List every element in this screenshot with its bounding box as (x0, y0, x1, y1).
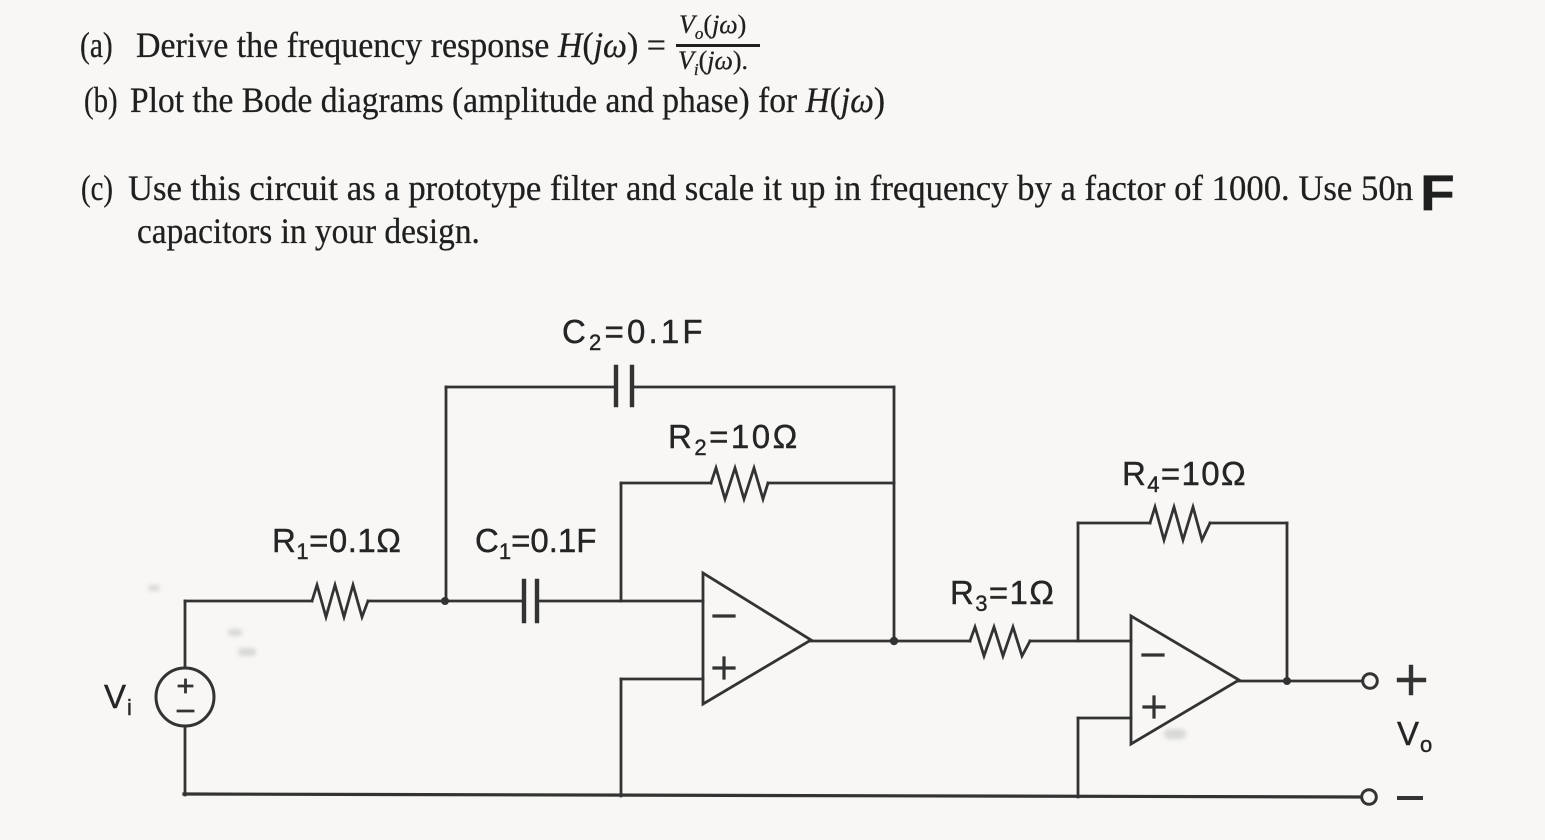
capacitor C2 (616, 367, 632, 405)
wire: U2 noninverting input horizontal (1078, 717, 1131, 720)
svg-text:Vi: Vi (104, 678, 133, 720)
node C junction dot at R4/output (1283, 677, 1291, 685)
node A junction dot (441, 597, 449, 605)
svg-text:C1=0.1F: C1=0.1F (475, 522, 596, 564)
wire: R4 top left horizontal (1078, 522, 1150, 525)
Vi minus sign (178, 710, 193, 713)
svg-text:Vo: Vo (1397, 715, 1433, 757)
scan smudge artifacts (148, 585, 1186, 739)
output + sign (1399, 667, 1424, 693)
wire: R4 top right horizontal (1210, 522, 1287, 525)
fraction numerator Vo(jw) (679, 12, 746, 38)
stylized F at end of line (c) (1420, 164, 1455, 222)
wire: R4 branch left vertical (1077, 523, 1080, 641)
wire: U1 noninverting drop to ground rail (620, 679, 623, 796)
wire: C1 to op-amp U1 inverting input (539, 600, 703, 603)
wire: Vi bottom lead (184, 726, 187, 795)
problem text line (b) (84, 79, 118, 121)
output - sign (1399, 796, 1421, 800)
Vi plus sign (179, 680, 192, 692)
U1 minus label (714, 614, 734, 617)
wire: C2 top left horizontal (446, 386, 614, 389)
wire: U2 noninverting drop to ground rail (1077, 718, 1080, 797)
svg-text:R3=1Ω: R3=1Ω (950, 574, 1055, 616)
wire: C2 branch right vertical down to U1 output (893, 387, 896, 641)
wire: U1 noninverting input horizontal (621, 678, 703, 681)
terminal - output circle (1362, 790, 1377, 805)
problem text line (c) first line (81, 167, 113, 209)
resistor R2 (711, 468, 768, 499)
node B junction dot at U1 output (890, 637, 898, 645)
svg-text:R1=0.1Ω: R1=0.1Ω (272, 522, 401, 564)
wire: R4 branch right vertical down to output (1286, 523, 1289, 682)
voltage source Vi (156, 668, 214, 726)
capacitor C1 (524, 581, 537, 621)
svg-text:C2=0.1F: C2=0.1F (562, 313, 706, 355)
resistor R1 (312, 585, 368, 617)
svg-text:R4=10Ω: R4=10Ω (1122, 455, 1247, 497)
wire: R2 branch left vertical (620, 483, 623, 601)
wire: top-left corner to R1 (185, 600, 312, 603)
wire: C2 top right horizontal (634, 386, 894, 389)
op-amp U1 (703, 573, 811, 704)
wire: R2 left horizontal (621, 482, 711, 485)
wire: ground rail bottom (184, 794, 1361, 797)
wire: Vi top lead (184, 601, 187, 668)
op-amp U2 (1131, 616, 1239, 744)
wire: R2 right horizontal (768, 482, 894, 485)
terminal + output circle (1363, 674, 1378, 689)
problem text line (c) second line (137, 210, 480, 252)
resistor R3 (970, 627, 1030, 656)
wire: R1 to C1 (368, 600, 521, 603)
fraction bar (676, 44, 760, 47)
resistor R4 (1150, 507, 1210, 540)
U2 plus label (1144, 697, 1164, 717)
U1 plus label (714, 658, 734, 678)
svg-text:R2=10Ω: R2=10Ω (668, 418, 800, 460)
problem text line (a) (80, 24, 113, 66)
fraction denominator Vi(jw) (678, 48, 748, 74)
U2 minus label (1143, 653, 1163, 656)
wire: U1 output to R3 (811, 640, 970, 643)
wire: R3 to op-amp U2 inverting input (1030, 640, 1131, 643)
wire: C2 branch left vertical (445, 387, 448, 601)
wire: U2 output to + terminal (1239, 680, 1361, 683)
